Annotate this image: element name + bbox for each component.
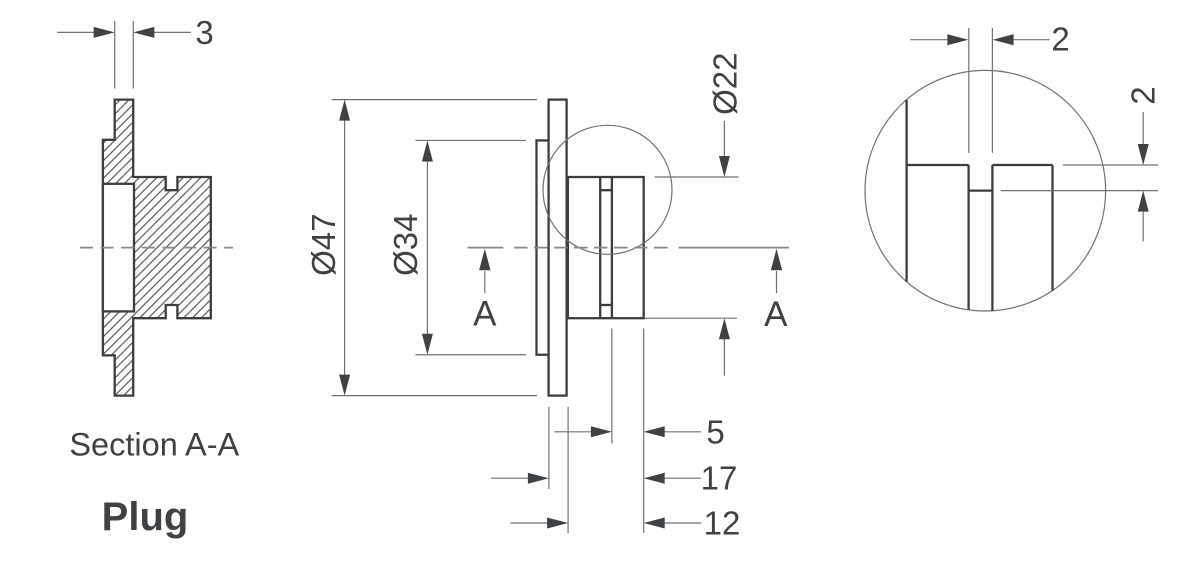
svg-text:Ø22: Ø22: [707, 53, 744, 115]
dimension O47: [305, 100, 537, 396]
body end face (detail): [1051, 165, 1053, 291]
groove right wall (detail): [991, 165, 993, 311]
groove root (detail): [969, 189, 993, 191]
dimension 2 groove depth: [1001, 86, 1162, 241]
section outline (hatched cross-section of plug): [103, 100, 211, 396]
body O22: [568, 177, 644, 318]
svg-text:5: 5: [706, 413, 724, 450]
svg-text:Ø47: Ø47: [305, 214, 342, 276]
svg-text:Ø34: Ø34: [387, 214, 424, 276]
centerline (main view) with section plane: [468, 247, 790, 249]
groove root top: [600, 189, 612, 191]
svg-text:17: 17: [701, 460, 738, 497]
boss disc O34: [537, 140, 549, 354]
svg-text:A: A: [473, 295, 497, 334]
groove left wall (detail): [967, 165, 969, 310]
dimension 17: [491, 460, 737, 497]
centerline (section view): [80, 247, 233, 249]
detail circle marker: [543, 125, 672, 254]
body top edge right: [992, 164, 1052, 166]
groove right wall: [611, 177, 613, 318]
svg-text:2: 2: [1125, 86, 1162, 104]
dimension O34: [387, 140, 526, 354]
dimension 5 (groove land): [554, 413, 724, 450]
dimension 12: [510, 505, 740, 542]
dimension 2 groove width: [910, 21, 1070, 153]
groove root bottom: [600, 304, 612, 306]
section arrow A left: [473, 249, 497, 334]
flange O47: [549, 100, 567, 396]
groove left wall: [599, 177, 601, 318]
body top edge left: [907, 164, 969, 166]
svg-text:3: 3: [195, 14, 213, 51]
dimension O22: [645, 53, 744, 376]
svg-text:Plug: Plug: [102, 495, 189, 539]
svg-text:Section A-A: Section A-A: [69, 427, 239, 463]
detail boundary circle: [865, 70, 1106, 311]
dimension 3 (flange thickness): [57, 14, 213, 89]
flange face line: [905, 100, 907, 282]
svg-text:2: 2: [1051, 21, 1069, 58]
bottom extension lines: [549, 329, 644, 534]
bore (counterbore recess, white): [103, 184, 134, 312]
svg-text:12: 12: [704, 505, 741, 542]
svg-text:A: A: [764, 295, 788, 334]
section arrow A right: [764, 249, 788, 334]
